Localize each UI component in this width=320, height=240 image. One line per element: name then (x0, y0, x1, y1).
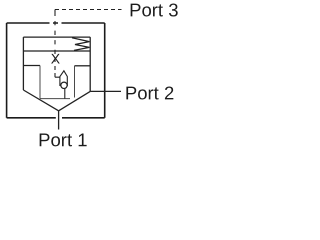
svg-text:Port 2: Port 2 (125, 82, 174, 103)
svg-text:Port 1: Port 1 (38, 129, 87, 150)
svg-text:X: X (51, 50, 61, 66)
svg-text:Port 3: Port 3 (129, 0, 178, 20)
